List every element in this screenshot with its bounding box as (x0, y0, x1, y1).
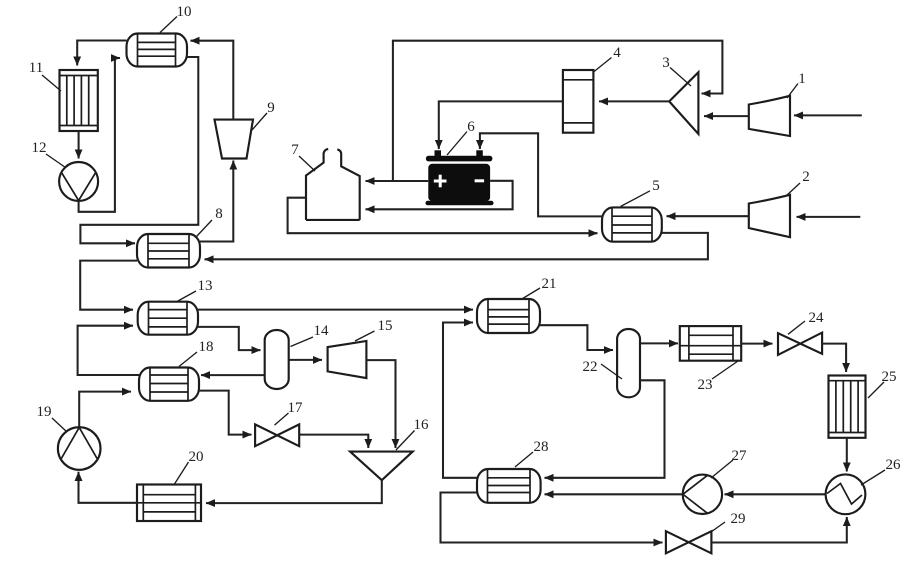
svg-text:21: 21 (542, 276, 557, 292)
valve 29 (666, 531, 712, 553)
svg-text:2: 2 (802, 169, 810, 185)
label 17 (275, 400, 304, 425)
radiator 11 (60, 70, 98, 131)
label 14 (291, 323, 330, 347)
wire HX13 right-bottom to separator14 (198, 327, 261, 350)
label 28 (515, 439, 549, 467)
fan 1 (749, 96, 790, 136)
svg-text:25: 25 (882, 369, 897, 385)
vessel 4 (563, 70, 594, 133)
label 23 (698, 361, 739, 393)
label 10 (160, 4, 192, 33)
svg-text:5: 5 (652, 178, 660, 194)
label 1 (787, 71, 806, 98)
svg-text:8: 8 (215, 206, 223, 222)
wire ejector3 to vessel4 (599, 100, 669, 102)
svg-text:23: 23 (698, 377, 713, 393)
wire compressor9 to HX10 right-top (191, 41, 234, 120)
compressor 9 (215, 120, 254, 159)
separator 22 (617, 329, 640, 397)
tank 7 (306, 149, 360, 220)
wire vessel4 to battery terminal 1 (439, 101, 563, 149)
compressor 15 (328, 341, 367, 378)
heat exchanger coil 26 (826, 474, 866, 514)
svg-text:28: 28 (534, 439, 549, 455)
svg-text:14: 14 (314, 323, 330, 339)
svg-text:29: 29 (731, 511, 746, 527)
heat exchanger 18 (139, 368, 199, 401)
wire HX18 right-bottom to valve17 (199, 391, 252, 435)
wire HX8 left-bottom to HX13 left-top (80, 261, 137, 310)
mixer funnel 16 (350, 452, 413, 481)
wire fan2 intake (797, 216, 861, 218)
heat exchanger 28 (477, 469, 541, 503)
wire separator14 bottom-left to HX18 right inlet (201, 374, 265, 376)
wire fan1 intake (794, 114, 862, 116)
wire HX8 right-top to compressor9 (200, 161, 233, 242)
wire tank7 outlet to HX5 left-bottom (288, 198, 598, 234)
wire radiator23 to valve24 (741, 343, 772, 345)
label 22 (583, 359, 623, 379)
heat exchanger 8 (137, 234, 200, 268)
svg-text:17: 17 (288, 400, 304, 416)
wire HX28 left-top up to HX21 left-bottom (443, 323, 477, 478)
label 20 (175, 449, 204, 484)
label 24 (788, 310, 824, 334)
svg-text:13: 13 (198, 278, 213, 294)
radiator 23 (680, 326, 741, 361)
label 9 (252, 100, 275, 130)
label 11 (29, 60, 61, 91)
svg-text:10: 10 (177, 4, 192, 20)
valve 17 (255, 424, 299, 446)
label 16 (396, 417, 429, 450)
label 12 (32, 140, 66, 168)
wire compressor15 to funnel16 (366, 360, 395, 448)
svg-text:19: 19 (37, 404, 52, 420)
wire HX5 right-bottom to HX8 right inlet (205, 233, 708, 259)
svg-text:4: 4 (613, 45, 621, 61)
svg-text:26: 26 (886, 457, 902, 473)
wire funnel16 stem to radiator20 (206, 480, 382, 503)
label 5 (621, 178, 660, 206)
svg-text:3: 3 (662, 55, 670, 71)
wire battery right to tank7 lower inlet (366, 181, 513, 210)
label 19 (37, 404, 68, 432)
wire radiator11 to pump12 (78, 131, 80, 159)
pump 19 (58, 427, 101, 470)
valve 24 (778, 333, 822, 355)
svg-text:7: 7 (291, 142, 299, 158)
wire separator22 to radiator23 (640, 342, 678, 344)
wire separator22 bottom to HX28 right-top (545, 380, 665, 478)
pump 12 (59, 162, 98, 201)
heat exchanger 13 (138, 302, 198, 335)
wire pump19 outlet to HX18 left-bottom (79, 392, 131, 428)
radiator 20 (137, 485, 201, 522)
separator 14 (265, 330, 289, 389)
heat exchanger 21 (477, 299, 540, 333)
label 6 (447, 119, 475, 155)
wire pump12 outlet to HX10 left inlet (79, 58, 120, 212)
wire valve17 to funnel16 (299, 435, 368, 448)
label 26 (861, 457, 901, 485)
svg-text:11: 11 (29, 60, 43, 76)
label 27 (711, 448, 747, 478)
wire HX10 right-bottom loop to HX8 left-top (80, 57, 198, 243)
wire HX21 right to separator22 (540, 325, 613, 350)
svg-text:27: 27 (732, 448, 748, 464)
label 18 (179, 339, 214, 367)
svg-text:1: 1 (798, 71, 806, 87)
label 21 (521, 276, 557, 300)
wire battery left to tank7 upper inlet (366, 180, 429, 182)
svg-text:20: 20 (189, 449, 204, 465)
svg-text:12: 12 (32, 140, 47, 156)
label 25 (868, 369, 897, 398)
svg-text:18: 18 (199, 339, 214, 355)
svg-text:24: 24 (809, 310, 825, 326)
wire HX10 left-top to radiator11 (77, 41, 126, 66)
label 29 (711, 511, 746, 532)
label 4 (594, 45, 622, 72)
pump 27 (683, 475, 722, 514)
battery 6 (426, 150, 494, 205)
label 7 (291, 142, 315, 171)
heat exchanger 5 (602, 207, 662, 241)
svg-text:22: 22 (583, 359, 598, 375)
svg-text:16: 16 (414, 417, 430, 433)
svg-text:15: 15 (378, 318, 393, 334)
fan 2 (749, 195, 790, 237)
heat exchanger 10 (127, 34, 188, 67)
label 13 (177, 278, 213, 302)
radiator 25 (829, 376, 866, 438)
svg-text:9: 9 (267, 100, 275, 116)
label 15 (355, 318, 393, 341)
wire valve24 to radiator25 (822, 344, 846, 372)
wire HX5 left-top to battery terminal 2 (480, 133, 602, 216)
label 2 (786, 169, 810, 196)
wire separator14 to compressor15 (289, 359, 322, 361)
label 8 (197, 206, 223, 237)
wire coil26 to pump27 (725, 493, 826, 495)
svg-text:6: 6 (467, 119, 475, 135)
wire HX13 right-top to HX21 left-top (198, 309, 473, 311)
wire HX18 left-top to HX13 left-bottom (78, 326, 139, 375)
wire radiator20 to pump19 (79, 472, 138, 503)
wire recirculation top: battery exhaust up over to ejector3 upper inlet (393, 41, 723, 181)
ejector 3 (669, 72, 698, 134)
wire HX28 left-bottom to valve29 (441, 493, 663, 543)
wire radiator25 to coil26 (846, 438, 848, 472)
wire fan2 to HX5 right-top (667, 215, 749, 217)
label 3 (662, 55, 691, 86)
wire pump27 to HX28 right-bottom (545, 493, 683, 495)
wire fan1 to ejector3 lower inlet (704, 115, 749, 117)
wire valve29 to coil26 bottom (711, 517, 846, 543)
